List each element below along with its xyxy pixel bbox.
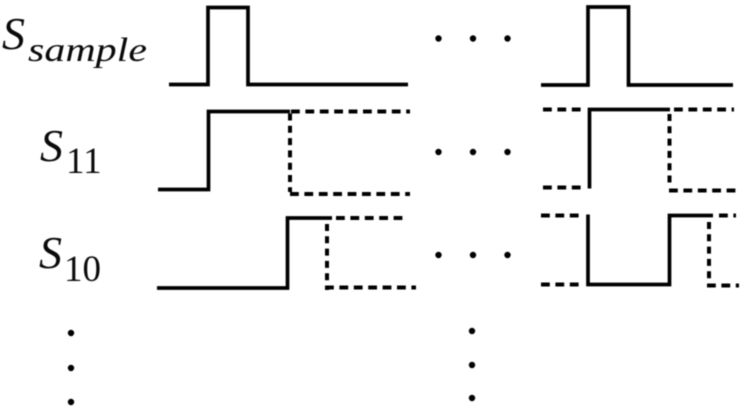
node middle vertical ellipsis (469, 328, 475, 401)
wire S_10 right dashed high continuation (719, 214, 736, 218)
wire S_11 right solid rising step (590, 110, 671, 189)
wire S_11 right dashed falling edge (668, 114, 672, 186)
node left vertical ellipsis (68, 330, 74, 405)
node S_11 ellipsis dots (435, 149, 510, 155)
svg-text:10: 10 (64, 249, 101, 290)
wire S_11 left solid rising step (158, 112, 290, 190)
wire S_11 left dashed high continuation (291, 110, 410, 114)
wire S_11 right dashed low lead-in (543, 186, 583, 190)
wire S_sample left pulse (169, 8, 408, 85)
wire S_11 left dashed low continuation (290, 192, 410, 196)
svg-text:11: 11 (66, 141, 102, 182)
wire S_sample right pulse (541, 7, 733, 85)
svg-text:S: S (40, 120, 63, 171)
node S_10 ellipsis dots (435, 252, 510, 258)
wire S_10 right dashed low lead-in (541, 283, 581, 287)
wire S_10 left dashed low continuation (325, 286, 416, 290)
svg-text:S: S (39, 227, 62, 278)
wire S_10 right dashed low continuation (707, 284, 739, 288)
wire S_10 left dashed falling edge (325, 224, 329, 290)
wire S_10 left solid rising step (157, 218, 332, 288)
wire S_10 right dashed falling edge (707, 222, 711, 285)
wire S_11 right dashed high continuation (674, 108, 734, 112)
wire S_11 left dashed falling edge (288, 114, 292, 193)
svg-text:S: S (2, 8, 25, 59)
wire S_10 left dashed high continuation (336, 216, 406, 220)
node S_sample label (2, 8, 147, 69)
wire S_11 right dashed low continuation (669, 189, 738, 193)
svg-text:sample: sample (28, 32, 147, 69)
node S_10 label (39, 227, 101, 290)
wire S_11 right dashed high lead-in (543, 108, 583, 112)
wire S_10 right solid low pulse (588, 215, 713, 285)
node S_sample ellipsis dots (435, 35, 510, 41)
wire S_10 right dashed high lead-in (541, 214, 579, 218)
node S_11 label (40, 120, 102, 182)
